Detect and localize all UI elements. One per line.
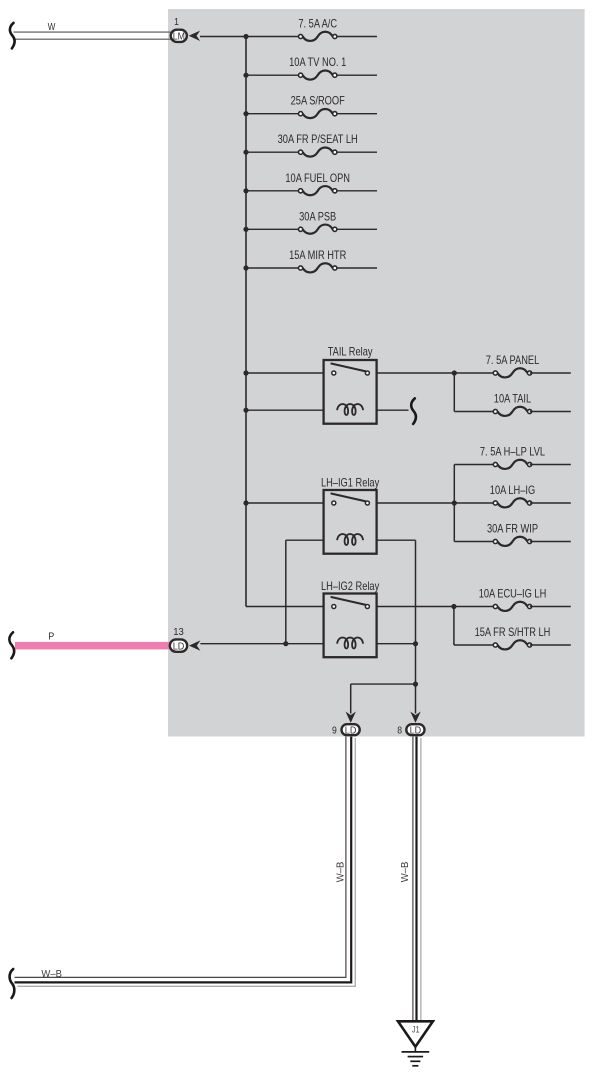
- fuse 10A TAIL: [493, 393, 531, 416]
- junction bus row 7: [243, 265, 248, 270]
- fuse 30A FR WIP: [487, 523, 538, 546]
- relay TAIL: [324, 345, 377, 423]
- wire stub row 3: [335, 113, 377, 115]
- relay LH-IG1: [321, 476, 379, 553]
- wire stub 15A FR S/HTR LH: [530, 644, 571, 646]
- junction bus row 4: [243, 150, 248, 155]
- svg-text:25A S/ROOF: 25A S/ROOF: [291, 95, 345, 108]
- wire TAIL coil to squiggle: [377, 409, 409, 411]
- wire bus to fuse row 3: [246, 113, 301, 115]
- wire stub row 4: [335, 151, 377, 153]
- wire branch to pin 9: [351, 683, 416, 685]
- svg-text:LD: LD: [173, 641, 185, 652]
- svg-text:J1: J1: [412, 1024, 420, 1034]
- wire stub row 2: [335, 74, 377, 76]
- connector LD pin 13: [170, 639, 187, 652]
- fuse 10A TV NO. 1: [289, 56, 346, 79]
- wire stub row 5: [335, 190, 377, 192]
- wire LH-IG1 coil right: [377, 539, 416, 541]
- wire to fuse 10A ECU-IG LH: [454, 606, 496, 608]
- svg-text:13: 13: [173, 626, 184, 638]
- wire bus to TAIL coil: [246, 409, 324, 411]
- wire bus to fuse row 1: [246, 36, 301, 38]
- wire drop to pin 8 arrow: [415, 684, 417, 713]
- junction node TAIL feed: [452, 370, 457, 375]
- svg-text:30A FR P/SEAT LH: 30A FR P/SEAT LH: [278, 133, 358, 146]
- svg-text:10A TV NO. 1: 10A TV NO. 1: [289, 56, 346, 69]
- wire stub 10A ECU-IG LH: [530, 606, 571, 608]
- wire vertical ECU/S-HTR column: [453, 607, 455, 646]
- svg-text:8: 8: [397, 724, 402, 736]
- wire TAIL switch out to fuse column: [377, 372, 455, 374]
- wire stub TAIL: [530, 411, 571, 413]
- svg-text:LH–IG2 Relay: LH–IG2 Relay: [321, 580, 379, 593]
- svg-text:7. 5A H–LP LVL: 7. 5A H–LP LVL: [480, 446, 546, 459]
- fuse 10A LH-IG: [490, 484, 535, 507]
- frame-crossing squiggle, P wire: [9, 632, 14, 658]
- fuse 10A ECU-IG LH: [479, 588, 547, 611]
- junction box panel (gray): [168, 9, 585, 737]
- wire stub 10A LH-IG: [530, 502, 571, 504]
- junction node LH-IG1 feed: [452, 500, 457, 505]
- fuse 7. 5A A/C: [298, 18, 337, 41]
- fuse 15A FR S/HTR LH: [475, 626, 551, 649]
- svg-text:10A FUEL OPN: 10A FUEL OPN: [285, 172, 350, 185]
- wire vertical H-LP/LH-IG/FR WIP column: [453, 465, 455, 542]
- wire W-B from pin 9 (double line with echo): [15, 737, 356, 987]
- wire to fuse PANEL: [454, 372, 495, 374]
- frame-crossing squiggle, W-B wire: [10, 969, 15, 998]
- wire stub PANEL: [530, 372, 571, 374]
- wire stub row 7: [335, 267, 377, 269]
- junction bus row 2: [243, 73, 248, 78]
- junction branch to pin 9: [413, 682, 418, 687]
- junction bus TAIL coil row: [243, 408, 248, 413]
- wire vertical coil-left drop: [285, 540, 287, 644]
- connector LM pin 1: [171, 30, 187, 43]
- wire LM to bus, row 1: [200, 36, 246, 38]
- wire LH-IG1 coil left: [286, 539, 324, 541]
- arrow into LD pin 13: [189, 640, 200, 650]
- svg-text:30A PSB: 30A PSB: [299, 210, 336, 223]
- junction bus LH-IG1 switch row: [243, 500, 248, 505]
- junction bus row 5: [243, 188, 248, 193]
- relay LH-IG2: [321, 580, 379, 657]
- svg-text:W–B: W–B: [400, 862, 411, 883]
- wire stub row 6: [335, 228, 377, 230]
- fuse 30A FR P/SEAT LH: [278, 133, 358, 156]
- wire bus to LH-IG2 switch: [246, 606, 324, 608]
- junction node LH-IG2 feed: [451, 604, 456, 609]
- wire W (white, double line): [14, 32, 171, 39]
- svg-text:7. 5A A/C: 7. 5A A/C: [298, 18, 337, 31]
- frame-crossing squiggle, TAIL coil wire: [411, 398, 416, 424]
- arrow into LD pin 8: [410, 712, 420, 723]
- svg-text:LD: LD: [345, 725, 357, 736]
- svg-text:W–B: W–B: [41, 969, 62, 980]
- fuse 30A PSB: [299, 210, 337, 233]
- fuse 25A S/ROOF: [291, 95, 345, 118]
- wire stub 30A FR WIP: [530, 541, 571, 543]
- wire vertical coil-right drop: [415, 540, 417, 684]
- svg-text:W: W: [48, 21, 56, 33]
- svg-text:LD: LD: [410, 725, 422, 736]
- svg-text:10A ECU–IG LH: 10A ECU–IG LH: [479, 588, 547, 601]
- fuse 7.5A PANEL: [486, 354, 540, 377]
- wire stub 7. 5A H-LP LVL: [530, 464, 571, 466]
- svg-text:P: P: [48, 631, 54, 643]
- svg-text:1: 1: [174, 16, 179, 28]
- svg-text:15A FR S/HTR LH: 15A FR S/HTR LH: [475, 626, 551, 639]
- fuse 15A MIR HTR: [289, 249, 346, 272]
- arrow into LM: [189, 31, 200, 41]
- svg-text:TAIL Relay: TAIL Relay: [328, 345, 373, 358]
- frame-crossing squiggle, W wire: [10, 23, 15, 49]
- wire P (pink): [15, 642, 170, 650]
- connector LD pin 8: [406, 724, 424, 736]
- junction coil-left drop: [283, 641, 288, 646]
- svg-text:15A MIR HTR: 15A MIR HTR: [289, 249, 346, 262]
- wire to fuse 7. 5A H-LP LVL: [454, 464, 495, 466]
- junction bus row 3: [243, 111, 248, 116]
- wire bus to fuse row 5: [246, 190, 301, 192]
- wire bus to fuse row 2: [246, 74, 301, 76]
- wire to fuse 30A FR WIP: [454, 541, 495, 543]
- junction coil-right column: [413, 641, 418, 646]
- connector LD pin 9: [342, 724, 360, 736]
- junction bus TAIL switch row: [243, 370, 248, 375]
- fuse 7. 5A H-LP LVL: [480, 446, 546, 469]
- wire to fuse TAIL: [454, 411, 495, 413]
- svg-text:10A TAIL: 10A TAIL: [494, 393, 532, 406]
- svg-text:LM: LM: [173, 32, 185, 43]
- arrow into LD pin 9: [346, 712, 356, 723]
- wire to fuse 10A LH-IG: [454, 502, 495, 504]
- junction bus row 1: [243, 34, 248, 39]
- svg-text:W–B: W–B: [335, 862, 346, 883]
- wire W-B from pin 8 (double line with echo): [413, 737, 421, 1021]
- wire bus to fuse row 7: [246, 267, 301, 269]
- wire LH-IG2 switch out: [377, 606, 454, 608]
- wire vertical PANEL/TAIL column: [453, 373, 455, 412]
- wire bus to TAIL switch: [246, 372, 324, 374]
- ground J1: [398, 1021, 433, 1066]
- wire to fuse 15A FR S/HTR LH: [454, 644, 496, 646]
- wire bus to fuse row 6: [246, 228, 301, 230]
- svg-text:10A LH–IG: 10A LH–IG: [490, 484, 535, 497]
- wire LH-IG1 switch out: [377, 502, 455, 504]
- junction bus row 6: [243, 227, 248, 232]
- svg-text:9: 9: [332, 724, 337, 736]
- wire drop to pin 9 arrow: [350, 684, 352, 713]
- wire bus to fuse row 4: [246, 151, 301, 153]
- svg-text:LH–IG1 Relay: LH–IG1 Relay: [321, 476, 379, 489]
- wire LH-IG2 coil right: [377, 643, 416, 645]
- svg-text:7. 5A PANEL: 7. 5A PANEL: [486, 354, 540, 367]
- main bus wire vertical: [245, 37, 247, 607]
- wire stub row 1: [335, 36, 377, 38]
- wire bus to LH-IG1 switch: [246, 502, 324, 504]
- fuse 10A FUEL OPN: [285, 172, 350, 195]
- svg-text:30A FR WIP: 30A FR WIP: [487, 523, 538, 536]
- wire LD13 to LH-IG2 coil: [200, 643, 323, 645]
